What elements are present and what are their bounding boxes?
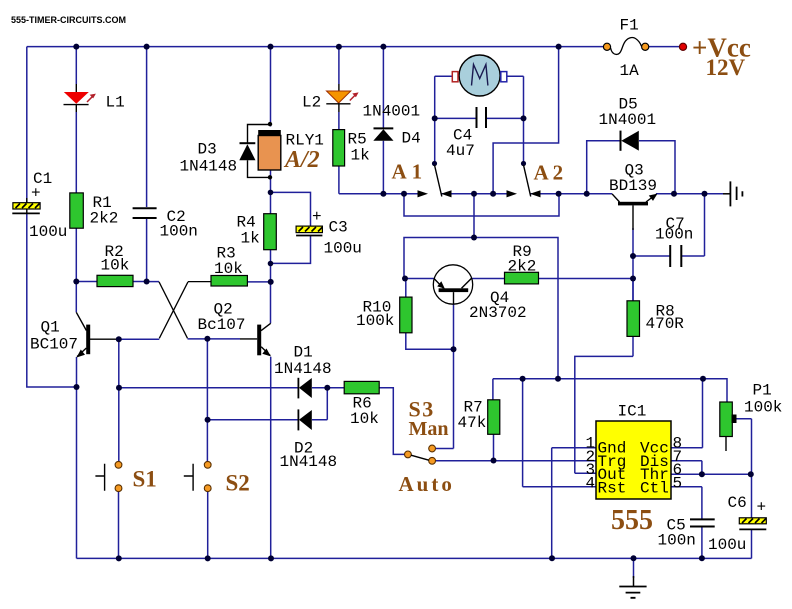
diode D5 1N4001 [599,96,657,151]
fuse F1 [603,17,648,81]
wire motor left column x434 [435,76,453,163]
transistor Q4 2N3702 [433,265,526,322]
wire pin5 Ctl to C5 [671,487,702,519]
svg-text:Bc107: Bc107 [198,316,246,334]
wire S3 lower contact to Trg pin2 [436,460,597,462]
wire L2/R5 column x339 [338,47,340,194]
potentiometer P1 [720,382,783,452]
svg-text:100n: 100n [655,226,693,244]
svg-text:100n: 100n [658,532,696,550]
svg-text:+: + [312,208,322,226]
resistor R6 [344,381,379,428]
svg-text:555: 555 [611,505,653,536]
svg-text:D3: D3 [198,141,217,159]
wire contact row A segment 2 [442,193,507,195]
svg-text:1N4148: 1N4148 [280,453,338,471]
svg-text:12V: 12V [706,55,746,80]
wire Q4 collector column x453 [453,305,455,449]
svg-text:100k: 100k [356,312,394,330]
wire D5 loop [587,141,675,194]
resistor R9 [505,243,539,284]
svg-text:Rst: Rst [598,479,627,497]
wire contact row A segment 4 Q3 emitter to ground [656,193,723,195]
svg-text:2N3702: 2N3702 [469,304,527,322]
+Vcc supply terminal [679,32,750,80]
wire C3 loop [271,192,311,263]
svg-text:10k: 10k [214,260,243,278]
capacitor C4 [446,107,486,160]
pushbutton S1 [95,461,156,491]
resistor R8 [627,301,684,337]
IC U1 555 timer [586,403,683,537]
diode D2 1N4148 [280,409,338,471]
svg-text:1N4148: 1N4148 [180,158,238,176]
wire R7 leads [492,379,495,461]
wire top rail tap to contact row x558-x493 [493,47,558,194]
relay contact A2 [507,161,568,198]
svg-text:555-TIMER-CIRCUITS.COM: 555-TIMER-CIRCUITS.COM [11,15,126,25]
resistor R7 [458,399,500,435]
capacitor C1 electrolytic [12,170,67,241]
wire R8 top lead [632,279,634,301]
svg-text:2k2: 2k2 [90,210,119,228]
svg-text:S1: S1 [133,467,157,492]
wire C7 row [633,194,705,256]
title text 555-TIMER-CIRCUITS.COM [11,15,126,25]
wire pin8 Vcc to supply row [671,379,703,448]
svg-text:C3: C3 [329,219,348,237]
svg-text:A2: A2 [534,161,568,185]
capacitor C2 [133,208,198,241]
svg-text:BD139: BD139 [609,177,657,195]
svg-text:+: + [31,185,41,203]
diode D4 1N4001 [363,103,421,148]
diode D1 1N4148 [274,344,332,399]
svg-text:IC1: IC1 [618,403,647,421]
ground right [723,181,742,206]
wire C4 row [435,117,524,119]
wire motor right column x523 [507,76,524,163]
resistor R3 [211,245,247,287]
svg-text:D1: D1 [294,344,313,362]
motor M1 [452,55,507,96]
wire R10 leads [406,279,454,350]
resistor R4 [237,214,277,250]
pushbutton S2 [184,461,250,495]
svg-text:P1: P1 [753,382,772,400]
wire bracket under contacts [404,194,559,216]
wire left rail C1 branch [27,47,77,387]
svg-text:2k2: 2k2 [508,258,537,276]
wire C2 column x146 [146,47,148,282]
switch S3 Man/Auto [399,397,455,497]
svg-text:10k: 10k [350,410,379,428]
transistor Q1 BC107 [30,312,90,357]
svg-text:C6: C6 [728,494,747,512]
wire pin7 Dis to Thr row [671,461,702,474]
svg-text:Man: Man [409,418,449,440]
resistor R5 [333,130,370,166]
wire C5 bottom [701,527,703,558]
svg-text:+: + [757,499,767,517]
svg-text:F1: F1 [620,17,639,35]
svg-text:1A: 1A [620,62,640,80]
relay contact A1 [392,160,452,198]
wire D2 row y420 [208,388,328,420]
wire cross-couple diagonal R3 to Q1 base [90,282,211,340]
transistor Q2 Bc107 [198,301,271,357]
svg-text:47k: 47k [458,414,487,432]
wire pin6 Thr row [671,473,751,475]
wire supply row y378 [493,379,727,402]
svg-text:BC107: BC107 [30,336,78,354]
svg-text:100u: 100u [29,223,67,241]
wire row C motor common to supply [404,194,558,379]
wire S1 column x118 [118,339,120,558]
wire L1/R1/Q1 column x76 [75,47,77,559]
svg-text:Ctl: Ctl [640,479,669,497]
svg-text:L2: L2 [302,94,321,112]
LED L2 orange [302,91,359,112]
svg-text:S2: S2 [226,471,250,496]
LED L1 red [64,92,125,112]
wire relay/R4 column x270 [270,47,272,559]
wire R3 leads [247,281,270,283]
capacitor C3 electrolytic [296,208,362,258]
svg-text:A1: A1 [392,160,428,184]
svg-text:1N4001: 1N4001 [363,103,421,121]
resistor R2 [97,243,133,287]
wire pin1 Gnd to bottom rail [552,448,596,558]
capacitor C6 electrolytic [708,494,766,554]
svg-text:4u7: 4u7 [446,142,475,160]
svg-text:Q1: Q1 [41,319,60,337]
wire S3 upper contact to Q4 collector [436,448,454,450]
svg-text:L1: L1 [106,94,125,112]
diode D3 1N4148 [180,125,271,178]
wire contact row A segment 3 to Q3 base [531,193,613,195]
svg-text:5: 5 [673,474,683,492]
resistor R1 [70,193,119,228]
wire P1 wiper to Thr/C6 column x751 [736,419,752,518]
svg-text:Auto: Auto [399,472,455,496]
svg-text:D4: D4 [402,130,421,148]
svg-text:100n: 100n [160,223,198,241]
wire D1 row y387 [119,387,344,389]
wire base row R10/Q4/R9 y278 [404,278,633,280]
svg-text:4: 4 [586,474,596,492]
transistor Q3 BD139 [609,162,658,231]
svg-text:A/2: A/2 [283,147,320,173]
wire D4 column x383 [382,47,384,194]
ground bottom [619,576,646,598]
svg-text:1k: 1k [351,147,370,165]
wire R6 to S3 pole [379,388,404,455]
svg-text:1N4001: 1N4001 [599,111,657,129]
capacitor C5 [658,517,715,550]
wire contact row A segment 1 [339,193,418,195]
svg-text:10k: 10k [101,257,130,275]
wire Q3 collector column x633 [632,228,634,301]
svg-text:1k: 1k [241,230,260,248]
svg-text:100k: 100k [744,399,782,417]
wire cross-couple diagonal R2 to Q2 base [147,282,258,339]
svg-text:100u: 100u [708,536,746,554]
wire ground stem bottom [633,558,635,578]
svg-text:1N4148: 1N4148 [274,360,332,378]
wire bottom rail [77,557,752,559]
relay coil RLY1 [258,130,324,173]
resistor R10 [356,297,412,333]
wire top +V rail [27,46,683,48]
wire pin4 Rst to supply row [523,379,596,487]
svg-text:470R: 470R [646,315,685,333]
wire S2 column x207 [206,339,208,559]
svg-text:100u: 100u [324,240,362,258]
wire pin3 Out to R8 [575,336,633,473]
wire R2 leads [76,281,146,283]
wire C6 bottom [751,529,753,558]
capacitor C7 [655,215,693,267]
